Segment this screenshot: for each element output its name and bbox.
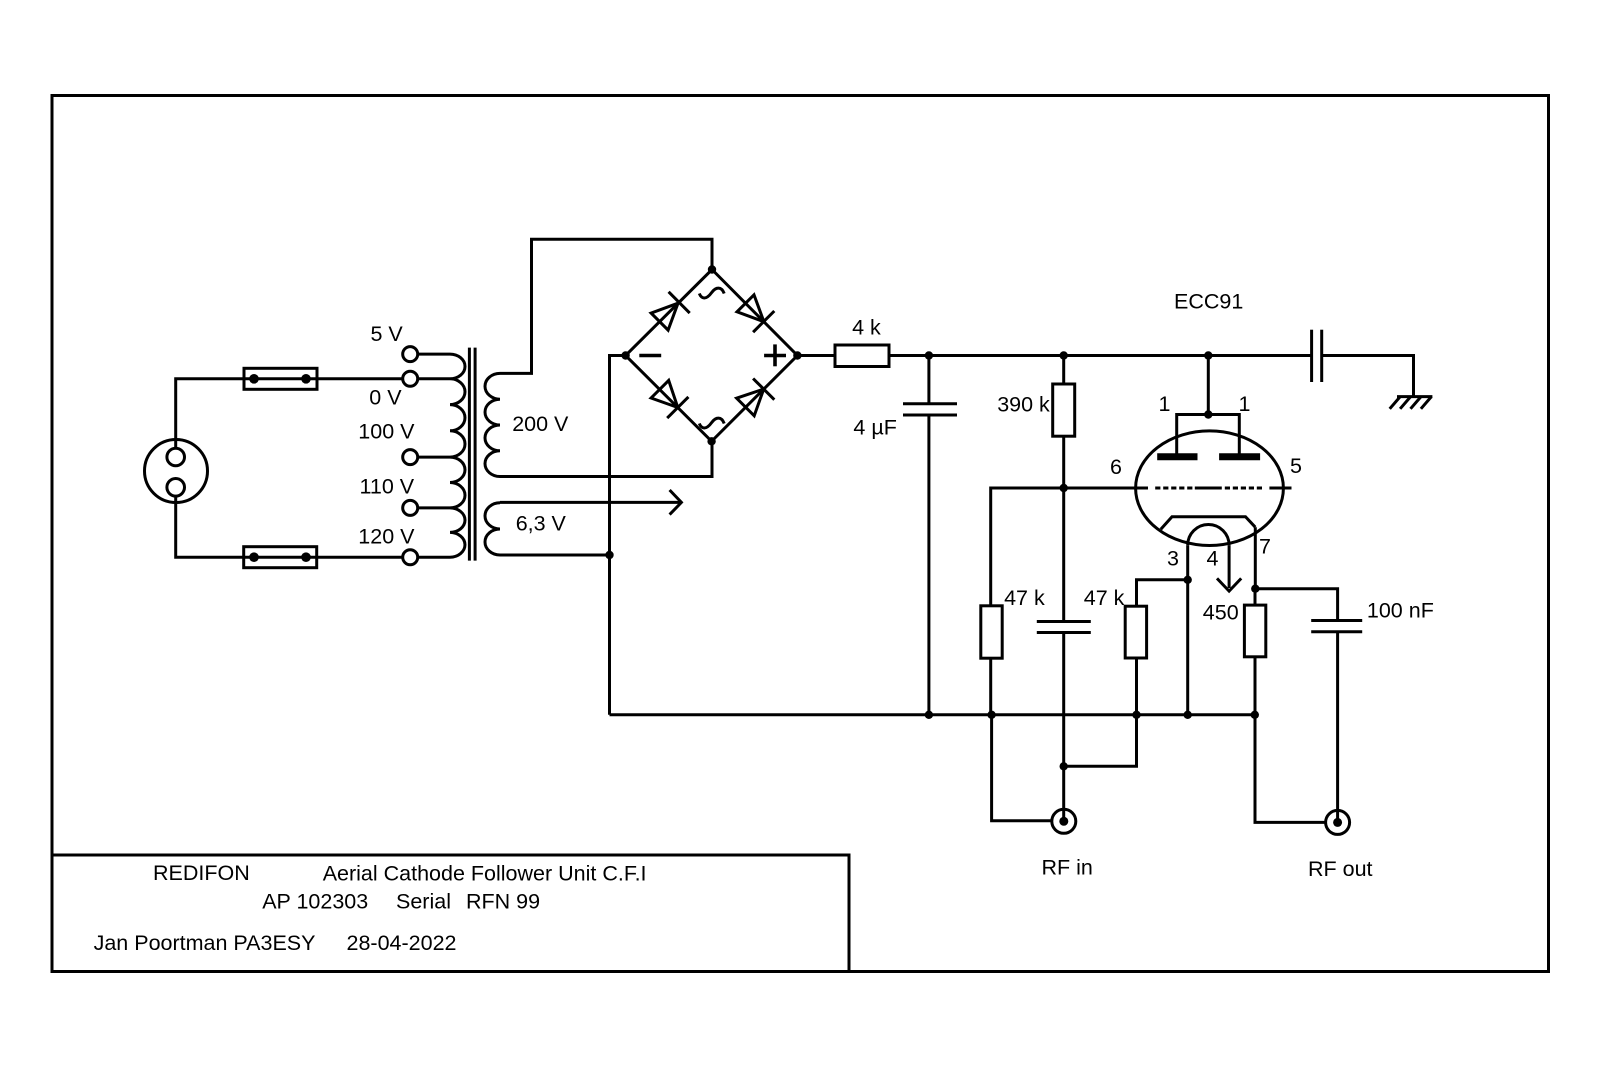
svg-text:47 k: 47 k xyxy=(1084,586,1125,610)
grid stub pin 5 xyxy=(1269,487,1291,490)
transformer T1 secondary 200V winding xyxy=(485,373,500,476)
svg-text:Aerial Cathode Follower Unit C: Aerial Cathode Follower Unit C.F.I xyxy=(323,862,647,886)
junction dot bridge bottom xyxy=(707,437,715,445)
ground symbol xyxy=(1397,395,1432,398)
svg-text:6: 6 xyxy=(1110,455,1122,479)
grid wire pin 6 xyxy=(991,488,1148,606)
plus sign node xyxy=(764,354,786,358)
transformer T1 primary tap 110V xyxy=(403,500,418,515)
wire input capacitor to RF in center xyxy=(1062,633,1065,822)
junction dot grid node xyxy=(1060,484,1068,492)
wire RF out shield xyxy=(1255,715,1326,823)
svg-text:RFN 99: RFN 99 xyxy=(466,890,540,914)
bridge rectifier diamond xyxy=(626,270,798,442)
junction dot rail 4uF xyxy=(925,351,933,359)
transformer T1 primary tap 5V xyxy=(403,347,418,362)
svg-text:390 k: 390 k xyxy=(997,393,1050,417)
svg-text:AP 102303: AP 102303 xyxy=(262,890,368,914)
resistor R1 4k xyxy=(835,345,889,367)
capacitor C4 (input coupling) xyxy=(1037,620,1091,623)
svg-text:Jan Poortman PA3ESY: Jan Poortman PA3ESY xyxy=(94,931,316,955)
svg-text:200 V: 200 V xyxy=(512,412,569,436)
wire RF in shield xyxy=(992,715,1052,821)
resistor R5 450 xyxy=(1254,589,1257,605)
svg-text:6,3 V: 6,3 V xyxy=(516,512,567,536)
resistor R2 390k xyxy=(1062,356,1065,385)
svg-text:5 V: 5 V xyxy=(371,322,404,346)
capacitor C3 100nF xyxy=(1311,619,1362,622)
anode plate left xyxy=(1157,453,1197,460)
connector J2 RF out xyxy=(1326,810,1350,834)
wire pin7 to 100nF xyxy=(1255,589,1337,621)
junction dot rail anode xyxy=(1204,351,1212,359)
grid dashed line inside tube xyxy=(1155,487,1160,490)
transformer T1 primary tap 0V xyxy=(403,371,418,386)
svg-text:5: 5 xyxy=(1290,454,1302,478)
diode D1 (top-left) xyxy=(651,303,678,330)
svg-text:1: 1 xyxy=(1239,392,1251,416)
svg-text:1: 1 xyxy=(1159,392,1171,416)
junction dot pin3 xyxy=(1184,576,1192,584)
capacitor C2 coupling (top right) xyxy=(1310,330,1313,382)
svg-text:RF in: RF in xyxy=(1042,856,1093,880)
transformer T1 primary winding xyxy=(450,354,465,557)
junction dot bus 4uF xyxy=(925,711,933,719)
svg-text:100 nF: 100 nF xyxy=(1367,599,1434,623)
AC tilde bottom xyxy=(699,418,724,428)
anode feed wire xyxy=(1207,356,1210,415)
transformer T1 primary tap 100V xyxy=(403,450,418,465)
wire 200V top lead to bridge xyxy=(500,239,712,373)
heater lead pin 4 arrow xyxy=(1228,545,1231,588)
fuse F2 dots xyxy=(249,552,259,562)
anode plate right xyxy=(1219,453,1260,460)
junction dot bridge right xyxy=(793,351,801,359)
junction dot bridge top xyxy=(708,265,716,273)
heater arc xyxy=(1188,525,1229,546)
junction dot 6.3V minus xyxy=(605,551,613,559)
connector J2 center pin xyxy=(1333,818,1342,827)
junction dot pin7 xyxy=(1251,585,1259,593)
wire bridge plus to 4k xyxy=(797,354,835,357)
svg-text:450: 450 xyxy=(1203,601,1239,625)
cathode xyxy=(1161,517,1256,530)
svg-text:ECC91: ECC91 xyxy=(1174,290,1243,314)
svg-text:120 V: 120 V xyxy=(358,525,415,549)
wire plug top to fuse xyxy=(176,379,403,449)
transformer T1 core xyxy=(468,348,471,561)
wire 6.3V top lead heater arrow xyxy=(500,501,680,504)
junction dot anode bracket xyxy=(1204,410,1212,418)
wire 47k heater to RF in branch xyxy=(1064,715,1137,767)
wire pin3 to 47k xyxy=(1137,580,1188,606)
junction dot RF in branch xyxy=(1060,762,1068,770)
svg-text:4: 4 xyxy=(1207,547,1219,571)
fuse F1 (top) xyxy=(244,368,317,389)
capacitor C1 4uF xyxy=(927,356,930,404)
svg-text:REDIFON: REDIFON xyxy=(153,861,250,885)
resistor R4 47k (heater bias) xyxy=(1125,606,1146,658)
wire minus line to ground bus xyxy=(610,356,626,715)
junction dot bus 450 xyxy=(1251,711,1259,719)
svg-text:47 k: 47 k xyxy=(1004,586,1045,610)
svg-text:110 V: 110 V xyxy=(360,475,415,499)
connector J1 center pin xyxy=(1059,817,1068,826)
connector J1 RF in xyxy=(1052,809,1076,833)
diode D3 (bottom-left) xyxy=(651,380,678,407)
wire plug bottom to fuse xyxy=(176,496,403,557)
junction dot bus 47k grid xyxy=(987,711,995,719)
AC tilde top xyxy=(699,288,724,298)
svg-text:7: 7 xyxy=(1259,535,1271,559)
B+ rail wire xyxy=(889,354,1312,357)
diode D2 (top-right) xyxy=(737,295,764,322)
svg-text:100 V: 100 V xyxy=(358,420,415,444)
wire 390k to input capacitor xyxy=(1062,488,1065,622)
transformer T1 primary tap 120V xyxy=(403,550,418,565)
title block box xyxy=(52,855,849,972)
fuse F2 (bottom) xyxy=(244,547,317,568)
wire 6.3V bottom lead to minus line xyxy=(500,554,610,557)
resistor R3 47k (grid leak) xyxy=(981,606,1002,658)
svg-text:0 V: 0 V xyxy=(369,386,402,410)
wire C2 to ground xyxy=(1322,356,1414,397)
minus sign node xyxy=(639,354,661,358)
mains plug P1 xyxy=(145,440,208,503)
heater lead pin 3 xyxy=(1186,545,1189,715)
svg-text:RF out: RF out xyxy=(1308,857,1373,881)
ground bus wire xyxy=(610,713,1255,716)
svg-text:4 µF: 4 µF xyxy=(853,416,896,440)
anode bracket pins 1,1 xyxy=(1177,415,1240,454)
svg-text:4 k: 4 k xyxy=(852,316,881,340)
junction dot bus pin3 xyxy=(1184,711,1192,719)
junction dot bus 47k heater xyxy=(1132,711,1140,719)
wire 200V bottom lead to bridge xyxy=(500,441,712,476)
junction dot bridge left xyxy=(621,351,629,359)
svg-text:28-04-2022: 28-04-2022 xyxy=(347,931,457,955)
page border frame xyxy=(52,96,1549,972)
fuse F1 dots xyxy=(249,374,259,384)
svg-text:Serial: Serial xyxy=(396,890,451,914)
tube U1 ECC91 envelope xyxy=(1136,431,1284,546)
junction dot rail 390k xyxy=(1060,351,1068,359)
cathode lead pin 7 xyxy=(1254,527,1257,589)
svg-text:3: 3 xyxy=(1167,547,1179,571)
diode D4 (bottom-right) xyxy=(737,389,764,416)
transformer T1 secondary 6.3V winding xyxy=(485,503,500,555)
